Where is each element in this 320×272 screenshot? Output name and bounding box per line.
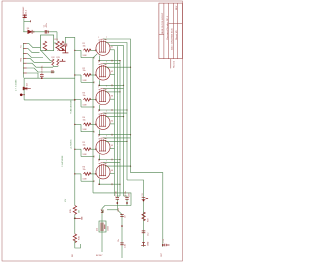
wire diagonal from U1 box <box>41 51 52 61</box>
cap bus1 bottom <box>116 197 119 199</box>
wire chain left end <box>75 241 81 248</box>
svg-text:HV: HV <box>65 198 67 202</box>
wire h205 <box>105 205 131 207</box>
svg-text:Date: 12/04/2008 10:45: Date: 12/04/2008 10:45 <box>171 27 174 50</box>
tube V6 electrodes <box>100 164 106 177</box>
capacitor C10 <box>120 243 123 245</box>
tube V4 <box>96 115 110 129</box>
cap bus2 bottom <box>125 197 128 199</box>
svg-text:1/4W: 1/4W <box>83 129 87 131</box>
capacitor C9 <box>120 215 123 217</box>
tube V6 <box>96 165 110 179</box>
svg-text:V1: V1 <box>111 46 113 48</box>
svg-text:7: 7 <box>106 136 107 138</box>
bus 2 <box>110 46 123 196</box>
svg-text:Document Number: NC-1: Document Number: NC-1 <box>166 15 169 39</box>
junction dot C3 <box>41 77 43 79</box>
svg-text:C11: C11 <box>142 193 144 196</box>
junction dot R15 <box>74 217 76 219</box>
wire pin1 stair <box>27 44 41 48</box>
svg-text:230VAC: 230VAC <box>22 6 25 14</box>
tube 5 pin ticks left <box>94 148 95 157</box>
wire pin3 stair <box>27 54 43 58</box>
tube V3 top pin ticks <box>99 88 107 89</box>
svg-text:15k: 15k <box>83 70 86 72</box>
junction dot tube 2 cathode <box>98 84 100 86</box>
junction dot tube 5 cathode <box>98 159 100 161</box>
capacitor C11 <box>143 200 145 202</box>
wire pin6 stair <box>27 68 55 72</box>
wire bus2 to cap <box>124 196 128 197</box>
wire bus1 to cap <box>117 196 120 197</box>
wire bottom rail <box>24 77 75 79</box>
tube V4 top pin ticks <box>99 113 107 114</box>
wire AC main horizontal <box>23 31 57 33</box>
title block sheet line <box>170 59 172 69</box>
wire tube 5 bottom <box>98 154 100 159</box>
svg-text:R13: R13 <box>57 57 60 59</box>
transistor Q1 box <box>99 221 106 232</box>
gnd lower left mark <box>20 94 23 97</box>
tube 4 pin ticks left <box>94 124 95 133</box>
title block outer box <box>159 3 182 59</box>
wire chain left mid <box>74 214 76 234</box>
tube 2 pin ticks left <box>94 74 95 83</box>
junction dot b2 <box>126 202 128 204</box>
regulator box U1 <box>41 35 54 51</box>
svg-text:Sheet 1: Sheet 1 <box>173 60 176 68</box>
resistor R2 <box>84 74 92 77</box>
junction bus tube 2 <box>130 67 131 68</box>
diode D2 <box>23 87 27 90</box>
pin tick tube 6 bottom <box>111 183 113 185</box>
svg-text:1: 1 <box>98 62 99 64</box>
junction feeder tube 4 <box>74 124 75 125</box>
wire from X1 down <box>23 18 25 32</box>
wire box to R11 <box>54 42 56 44</box>
wire tube 1 to buses <box>110 49 115 51</box>
wire tube 3 bottom <box>98 105 100 110</box>
daisy diagonal from tube1 <box>93 54 97 58</box>
svg-text:BC547: BC547 <box>96 255 103 257</box>
svg-text:1/4W: 1/4W <box>83 154 87 156</box>
gnd bar mid <box>59 49 66 51</box>
junction bus tube 4 <box>123 116 124 117</box>
svg-text:7: 7 <box>106 62 107 64</box>
tube V2 <box>96 66 110 80</box>
wire feed tube 1 <box>75 49 81 51</box>
wire diag 205 <box>102 206 105 253</box>
svg-text:Sheet: 1/1: Sheet: 1/1 <box>175 30 178 40</box>
svg-text:TUBE ANODE: TUBE ANODE <box>70 99 73 114</box>
svg-text:GND: GND <box>147 241 149 246</box>
svg-text:NIXIE CLOCK 6-DIGIT: NIXIE CLOCK 6-DIGIT <box>162 12 164 34</box>
tube 1 daisy segments <box>114 50 116 75</box>
tube V4 electrodes <box>100 114 106 127</box>
stub to tick <box>24 20 31 22</box>
left daisy vertical <box>92 58 94 193</box>
wire cluster join <box>53 65 58 66</box>
wire pin4 stair <box>27 58 52 62</box>
wire h210 <box>107 209 117 211</box>
resistor R16 <box>73 234 76 243</box>
svg-text:7: 7 <box>106 86 107 88</box>
svg-text:C7 10n: C7 10n <box>116 191 118 197</box>
gnd bar cluster <box>60 59 66 61</box>
junction bus tube 3 <box>119 91 120 92</box>
T1 pin 3 <box>23 53 27 55</box>
junction bus tube 5 bottom <box>119 159 120 160</box>
svg-text:REV: REV <box>176 5 178 10</box>
svg-text:V2: V2 <box>111 71 113 73</box>
pin tick tube 1 bottom <box>111 60 113 62</box>
transistor Q1 <box>101 223 105 232</box>
resistor R11b <box>60 41 64 50</box>
junction dot tube 1 cathode <box>98 60 100 62</box>
wire tube 2 to buses <box>104 63 121 65</box>
pin tick on X1 stub <box>30 20 32 22</box>
tube 5 daisy segments <box>114 149 116 174</box>
capacitor C3 <box>40 74 44 76</box>
wire tube 1 bottom <box>98 56 100 61</box>
tube V1 electrodes <box>100 40 106 53</box>
wire tube 5 to buses <box>104 137 131 139</box>
wire daisy to bottom <box>93 193 131 206</box>
capacitor C12 <box>142 231 146 233</box>
tube 2 daisy segments <box>114 75 116 100</box>
junction bus tube 6 <box>130 166 131 167</box>
svg-text:C3 100n: C3 100n <box>42 65 44 74</box>
tube V2 electrodes <box>100 65 106 78</box>
tube 6 pin ticks left <box>94 173 95 182</box>
svg-text:1: 1 <box>98 161 99 163</box>
T1 pin 1 <box>23 43 27 45</box>
svg-text:1: 1 <box>98 111 99 113</box>
svg-text:7: 7 <box>106 111 107 113</box>
marks bottom 143 <box>141 242 146 245</box>
svg-text:1/4W: 1/4W <box>83 179 87 181</box>
pin tick tube 4 bottom <box>111 134 113 136</box>
tube V3 <box>96 91 110 105</box>
junction dot tube 6 cathode <box>98 183 100 185</box>
junction dot feeder top <box>74 99 75 100</box>
wire tube 6 to buses <box>104 162 121 164</box>
frame border <box>2 1 183 261</box>
coil inside U1 <box>43 41 47 50</box>
junction feeder tube 3 <box>74 99 75 100</box>
resistor R5 <box>84 148 92 151</box>
junction dot tube 3 cathode <box>98 109 100 111</box>
diode D3 on q1 wire <box>101 210 103 213</box>
wire left drop <box>23 78 25 88</box>
pin tick tube 5 bottom <box>111 159 113 161</box>
svg-text:15k: 15k <box>83 169 86 171</box>
svg-text:C13: C13 <box>163 239 165 242</box>
tube V3 electrodes <box>100 90 106 103</box>
T1 pin 7 <box>23 72 27 74</box>
svg-text:C8 10n: C8 10n <box>125 191 127 197</box>
svg-text:1/4W: 1/4W <box>83 55 87 57</box>
resistor R4 <box>84 123 92 126</box>
resistor R13 <box>57 59 59 65</box>
svg-text:V3: V3 <box>111 96 113 98</box>
wire diag 210 <box>117 210 122 258</box>
junction bus tube 4 bottom <box>130 134 131 135</box>
pin tick tube 3 bottom <box>111 109 113 111</box>
feeder top loop wire <box>65 37 74 43</box>
pin header T1 line <box>22 43 24 78</box>
wire feed tube 5 <box>75 148 81 150</box>
svg-text:L.T. 6.3VAC: L.T. 6.3VAC <box>15 79 18 91</box>
junction feeder tube 1 <box>74 50 75 51</box>
capacitor C1 <box>45 30 47 34</box>
tube V2 top pin ticks <box>99 63 107 66</box>
svg-text:R12: R12 <box>52 57 55 59</box>
wire pin5 stair <box>27 63 53 67</box>
junction bus tube 1 bottom <box>119 60 120 61</box>
capacitor C2 <box>64 44 68 46</box>
resistor R11 <box>56 41 60 50</box>
junction bus tube 3 bottom <box>126 109 127 110</box>
wire tube 4 to buses <box>104 112 128 114</box>
resistor R3 <box>84 98 92 101</box>
wire bus4 to right <box>131 173 163 247</box>
wire tube 6 bottom <box>98 179 100 184</box>
tube V6 top pin ticks <box>99 163 107 164</box>
resistor R1 <box>84 49 92 52</box>
junction feeder tube 2 <box>74 74 75 75</box>
junction bus tube 5 <box>126 141 127 142</box>
wire pin7 join <box>27 73 38 78</box>
svg-text:15k: 15k <box>83 45 86 47</box>
svg-text:1/4W: 1/4W <box>83 80 87 82</box>
svg-text:100n: 100n <box>118 208 120 212</box>
svg-text:1: 1 <box>98 136 99 138</box>
T1 pin 6 <box>23 67 27 69</box>
C2 gnd lead <box>62 46 68 53</box>
title block column lines <box>163 3 165 59</box>
svg-text:+170VDC: +170VDC <box>71 139 73 149</box>
wire feed tube 3 <box>75 99 81 101</box>
tube V5 top pin ticks <box>99 138 107 139</box>
svg-text:C. KATHODE: C. KATHODE <box>61 155 64 167</box>
connector X1 <box>23 14 27 18</box>
junction bus tube 2 bottom <box>123 85 124 86</box>
stub right tick <box>75 217 82 220</box>
wire left long down <box>23 89 25 100</box>
title block divider <box>169 22 183 24</box>
bus 4 <box>104 39 131 173</box>
tube V1 top pin ticks <box>99 39 107 40</box>
wire long horizontal to feeder <box>24 99 75 101</box>
tube 3 pin ticks left <box>94 99 95 108</box>
wire tube 2 bottom <box>98 80 100 85</box>
tube V5 <box>96 140 110 154</box>
resistor R6 <box>84 173 92 176</box>
svg-text:1M: 1M <box>78 210 80 213</box>
wire C1 down to regulator <box>56 32 58 41</box>
svg-text:C12: C12 <box>147 233 149 236</box>
junction feeder tube 5 <box>74 149 75 150</box>
tube V5 electrodes <box>100 139 106 152</box>
wire bus3 to right <box>127 180 144 247</box>
svg-text:V6: V6 <box>111 170 113 172</box>
wire pin2 stair <box>27 49 40 53</box>
svg-text:13009: 13009 <box>108 226 110 231</box>
tube 3 daisy segments <box>114 99 116 124</box>
svg-text:R20: R20 <box>147 219 149 222</box>
bus 1 <box>119 61 121 196</box>
tube 1 pin ticks left <box>94 49 95 58</box>
svg-text:15k: 15k <box>83 120 86 122</box>
resistor R12 <box>52 59 54 65</box>
cap plate small <box>51 71 54 73</box>
wire feed tube 4 <box>75 123 81 125</box>
svg-text:7: 7 <box>106 160 107 162</box>
svg-text:C9: C9 <box>125 216 127 218</box>
svg-text:V4: V4 <box>111 120 113 122</box>
resistor R20 <box>142 212 145 221</box>
junction dot b1 <box>116 202 118 204</box>
T1 pin 4 <box>23 57 27 59</box>
svg-text:1: 1 <box>98 37 99 39</box>
junction bus tube 6 bottom <box>119 184 120 185</box>
tube V1 <box>96 41 110 55</box>
svg-text:470u: 470u <box>46 23 48 27</box>
junction dot C9 <box>121 225 123 227</box>
title block left divider <box>159 33 164 35</box>
T1 pin 5 <box>23 62 27 64</box>
svg-text:10n: 10n <box>118 239 120 242</box>
wire feed tube 2 <box>75 74 81 76</box>
tube 4 daisy segments <box>114 124 116 149</box>
feeder vertical wire <box>74 37 76 205</box>
svg-text:1/4W: 1/4W <box>83 105 87 107</box>
junction feeder tube 6 <box>74 173 75 174</box>
svg-text:15k: 15k <box>83 95 86 97</box>
wire feed tube 6 <box>75 173 81 175</box>
junction dot tube 4 cathode <box>98 134 100 136</box>
svg-text:1: 1 <box>98 86 99 88</box>
capacitor C13 <box>162 244 164 246</box>
pin tick tube 2 bottom <box>111 84 113 86</box>
wire tube 4 bottom <box>98 130 100 135</box>
svg-text:7: 7 <box>106 37 107 39</box>
wire tube 3 to buses <box>104 87 124 89</box>
bus 3 <box>106 43 128 181</box>
tube 6 daisy segments <box>114 173 116 196</box>
T1 pin 2 <box>23 48 27 50</box>
svg-text:V5: V5 <box>111 145 113 147</box>
resistor R15 <box>73 206 76 215</box>
svg-text:15k: 15k <box>83 144 86 146</box>
diode D1 <box>28 30 32 34</box>
